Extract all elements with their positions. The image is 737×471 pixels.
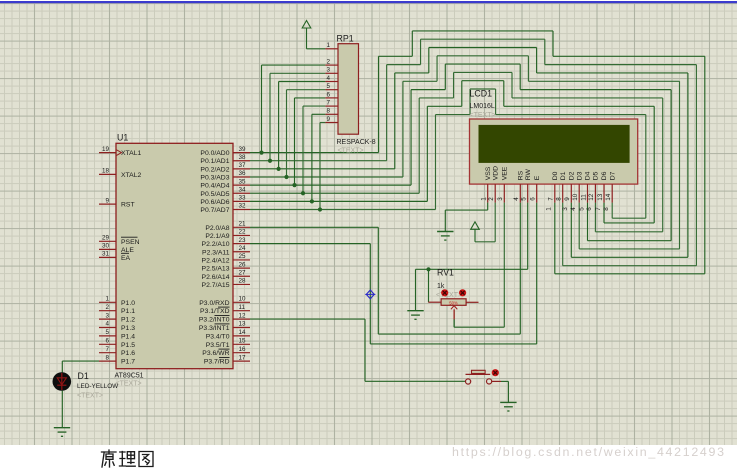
svg-text:ALE: ALE	[121, 247, 134, 254]
svg-text:D7: D7	[609, 171, 616, 180]
svg-text:19: 19	[102, 146, 110, 153]
svg-text:5: 5	[578, 207, 585, 211]
svg-text:P1.1: P1.1	[121, 308, 135, 315]
svg-text:10: 10	[239, 296, 247, 303]
svg-text:4: 4	[513, 197, 520, 201]
svg-text:2: 2	[326, 59, 330, 66]
svg-text:1k: 1k	[437, 283, 445, 290]
svg-text:8: 8	[105, 354, 109, 361]
svg-text:P2.3/A11: P2.3/A11	[202, 249, 230, 256]
svg-text:5: 5	[326, 83, 330, 90]
svg-text:38: 38	[239, 154, 247, 161]
svg-text:VSS: VSS	[485, 166, 492, 180]
svg-text:7: 7	[595, 207, 602, 211]
svg-text:13: 13	[597, 193, 604, 201]
svg-text:RP1: RP1	[337, 34, 354, 44]
svg-text:21: 21	[239, 221, 247, 228]
svg-text:RESPACK-8: RESPACK-8	[337, 139, 376, 146]
svg-text:3: 3	[497, 197, 504, 201]
svg-text:P0.0/AD0: P0.0/AD0	[200, 150, 229, 157]
svg-text:P3.7/RD: P3.7/RD	[204, 359, 230, 366]
svg-text:7: 7	[326, 100, 330, 107]
svg-text:5: 5	[521, 197, 528, 201]
svg-text:1: 1	[481, 197, 488, 201]
svg-text:RW: RW	[525, 169, 532, 181]
svg-text:LED-YELLOW: LED-YELLOW	[77, 383, 119, 390]
svg-text:8: 8	[603, 207, 610, 211]
svg-text:D6: D6	[601, 171, 608, 180]
svg-text:36: 36	[239, 170, 247, 177]
svg-text:P2.2/A10: P2.2/A10	[202, 241, 230, 248]
svg-text:8: 8	[556, 197, 563, 201]
svg-text:3: 3	[326, 67, 330, 74]
svg-text:PSEN: PSEN	[121, 239, 140, 246]
svg-text:32: 32	[239, 203, 247, 210]
svg-text:<TEXT>: <TEXT>	[116, 381, 142, 388]
svg-text:AT89C51: AT89C51	[115, 373, 144, 380]
svg-text:29: 29	[102, 235, 110, 242]
svg-text:11: 11	[580, 194, 587, 201]
svg-text:P0.4/AD4: P0.4/AD4	[200, 183, 229, 190]
svg-text:39: 39	[239, 146, 247, 153]
svg-text:10: 10	[572, 193, 579, 201]
svg-text:12: 12	[239, 312, 247, 319]
svg-text:P2.7/A15: P2.7/A15	[202, 282, 230, 289]
svg-text:VEE: VEE	[502, 166, 509, 180]
svg-text:28: 28	[239, 278, 247, 285]
svg-text:18: 18	[102, 168, 110, 175]
svg-text:<TEXT>: <TEXT>	[436, 292, 462, 299]
svg-text:LCD1: LCD1	[470, 89, 493, 99]
svg-text:E: E	[534, 175, 541, 180]
svg-text:D2: D2	[569, 171, 576, 180]
svg-text:9: 9	[564, 197, 571, 201]
svg-text:1: 1	[105, 296, 109, 303]
svg-text:37: 37	[239, 162, 247, 169]
svg-text:14: 14	[605, 193, 612, 201]
svg-text:P2.0/A8: P2.0/A8	[205, 225, 229, 232]
svg-text:33: 33	[239, 195, 247, 202]
svg-text:P1.7: P1.7	[121, 359, 135, 366]
svg-text:P1.2: P1.2	[121, 317, 135, 324]
svg-text:P3.0/RXD: P3.0/RXD	[199, 300, 229, 307]
svg-text:EA: EA	[121, 255, 131, 262]
svg-text:3: 3	[562, 207, 569, 211]
svg-text:12: 12	[588, 193, 595, 201]
svg-text:35: 35	[239, 178, 247, 185]
svg-text:U1: U1	[117, 133, 128, 143]
svg-text:30: 30	[102, 243, 110, 250]
svg-text:25: 25	[239, 253, 247, 260]
svg-text:11: 11	[239, 304, 246, 311]
svg-text:7: 7	[105, 346, 109, 353]
svg-text:9: 9	[105, 197, 109, 204]
svg-text:P1.3: P1.3	[121, 325, 135, 332]
svg-text:P3.2/INT0: P3.2/INT0	[199, 317, 230, 324]
svg-text:6: 6	[586, 207, 593, 211]
svg-text:4: 4	[326, 75, 330, 82]
svg-text:P1.4: P1.4	[121, 333, 135, 340]
svg-text:34: 34	[239, 186, 247, 193]
svg-text:P0.7/AD7: P0.7/AD7	[200, 207, 229, 214]
svg-text:31: 31	[102, 251, 110, 258]
svg-text:27: 27	[239, 269, 247, 276]
svg-text:RS: RS	[518, 170, 525, 180]
svg-text:P0.5/AD5: P0.5/AD5	[200, 191, 229, 198]
svg-text:P0.6/AD6: P0.6/AD6	[200, 199, 229, 206]
svg-text:XTAL2: XTAL2	[121, 172, 141, 179]
svg-text:<TEXT>: <TEXT>	[77, 393, 103, 400]
svg-text:22: 22	[239, 229, 247, 236]
svg-text:D3: D3	[576, 171, 583, 180]
svg-text:D0: D0	[552, 171, 559, 180]
svg-text:8: 8	[326, 108, 330, 115]
svg-text:5: 5	[105, 329, 109, 336]
svg-text:P3.4/T0: P3.4/T0	[206, 333, 230, 340]
svg-text:<TEXT>: <TEXT>	[470, 112, 496, 119]
svg-text:1: 1	[326, 42, 330, 49]
svg-text:2: 2	[105, 304, 109, 311]
svg-text:P3.1/TXD: P3.1/TXD	[200, 308, 230, 315]
svg-text:P2.5/A13: P2.5/A13	[202, 266, 230, 273]
svg-text:P1.6: P1.6	[121, 350, 135, 357]
svg-text:D1: D1	[560, 171, 567, 180]
svg-text:2: 2	[488, 197, 495, 201]
svg-text:D5: D5	[593, 171, 600, 180]
svg-text:7: 7	[548, 197, 555, 201]
svg-text:VDD: VDD	[492, 166, 499, 180]
svg-text:16: 16	[239, 346, 247, 353]
svg-text:P1.0: P1.0	[121, 300, 135, 307]
svg-text:26: 26	[239, 261, 247, 268]
svg-text:P3.3/INT1: P3.3/INT1	[199, 325, 230, 332]
svg-text:P2.4/A12: P2.4/A12	[202, 257, 230, 264]
svg-text:6: 6	[530, 197, 537, 201]
svg-text:P2.6/A14: P2.6/A14	[202, 274, 230, 281]
svg-text:17: 17	[239, 354, 247, 361]
svg-text:23: 23	[239, 237, 247, 244]
svg-text:D4: D4	[585, 171, 592, 180]
svg-text:6: 6	[105, 338, 109, 345]
svg-text:4: 4	[105, 321, 109, 328]
svg-text:9: 9	[326, 116, 330, 123]
svg-text:24: 24	[239, 245, 247, 252]
svg-text:RST: RST	[121, 202, 135, 209]
svg-text:14: 14	[239, 329, 247, 336]
svg-text:3: 3	[105, 312, 109, 319]
svg-text:P0.2/AD2: P0.2/AD2	[200, 166, 229, 173]
svg-text:XTAL1: XTAL1	[121, 150, 141, 157]
svg-text:LM016L: LM016L	[470, 103, 495, 110]
svg-text:50%: 50%	[449, 300, 458, 305]
svg-text:RV1: RV1	[437, 268, 454, 278]
svg-text:1: 1	[546, 207, 553, 211]
svg-text:15: 15	[239, 338, 247, 345]
svg-text:P0.1/AD1: P0.1/AD1	[200, 158, 229, 165]
svg-text:6: 6	[326, 91, 330, 98]
svg-text:P3.5/T1: P3.5/T1	[206, 342, 230, 349]
svg-text:P1.5: P1.5	[121, 342, 135, 349]
svg-text:4: 4	[570, 207, 577, 211]
svg-text:<TEXT>: <TEXT>	[338, 148, 364, 155]
svg-text:P2.1/A9: P2.1/A9	[205, 233, 229, 240]
svg-text:P3.6/WR: P3.6/WR	[202, 350, 229, 357]
svg-text:P0.3/AD3: P0.3/AD3	[200, 174, 229, 181]
svg-text:D1: D1	[78, 371, 89, 381]
svg-text:13: 13	[239, 321, 247, 328]
